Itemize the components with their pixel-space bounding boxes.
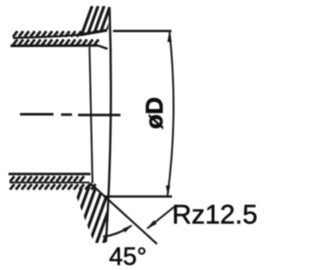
svg-text:45°: 45°: [109, 243, 147, 270]
svg-text:Rz12.5: Rz12.5: [172, 200, 258, 230]
svg-text:øD: øD: [142, 97, 169, 129]
